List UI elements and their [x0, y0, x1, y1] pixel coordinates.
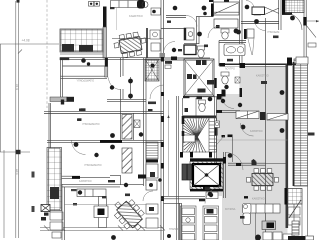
svg-text:ΚΑΘΙΣΤΙΚΟ: ΚΑΘΙΣΤΙΚΟ: [250, 130, 263, 133]
svg-text:3.85: 3.85: [16, 169, 20, 175]
svg-text:ΤΡΑΠΕΖ.: ΤΡΑΠΕΖ.: [169, 228, 179, 231]
svg-text:ΥΠΝΟΔΩΜΑΤΙΟ: ΥΠΝΟΔΩΜΑΤΙΟ: [77, 80, 95, 83]
svg-text:ΥΠΝΟΔΩΜΑΤΙΟ: ΥΠΝΟΔΩΜΑΤΙΟ: [82, 123, 100, 126]
svg-text:ΛΟΥΤΡΟ: ΛΟΥΤΡΟ: [225, 68, 235, 71]
svg-text:ΚΟΥΖΙΝΑ: ΚΟΥΖΙΝΑ: [225, 208, 236, 211]
svg-text:ΚΑΘΙΣΤΙΚΟ: ΚΑΘΙΣΤΙΚΟ: [256, 75, 269, 78]
svg-text:ΚΑΘΙΣΤΙΚΟ: ΚΑΘΙΣΤΙΚΟ: [79, 180, 92, 183]
svg-text:ΚΑΘΙΣΤΙΚΟ: ΚΑΘΙΣΤΙΚΟ: [129, 14, 143, 18]
svg-text:+4.08: +4.08: [22, 39, 30, 43]
svg-text:ΥΠΝΟΔΩΜ.: ΥΠΝΟΔΩΜ.: [267, 31, 280, 34]
svg-text:ΚΑΘΙΣΤΙΚΟ: ΚΑΘΙΣΤΙΚΟ: [252, 198, 265, 201]
svg-text:ΥΠΝΟΔΩΜΑΤΙΟ: ΥΠΝΟΔΩΜΑΤΙΟ: [84, 164, 102, 167]
svg-text:6.10: 6.10: [16, 84, 20, 90]
